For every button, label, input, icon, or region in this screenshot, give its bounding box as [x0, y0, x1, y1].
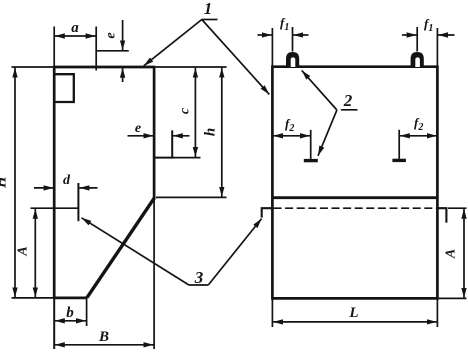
dimension a — [55, 35, 96, 37]
extension line b right — [86, 298, 88, 326]
dimension e top upper arrow — [122, 20, 124, 50]
svg-text:2: 2 — [343, 91, 353, 110]
anchor left base — [304, 159, 318, 162]
right hook notch — [437, 208, 446, 222]
lifting loop left — [286, 52, 299, 67]
svg-text:d: d — [63, 173, 71, 188]
extension line a left — [53, 27, 55, 67]
extension line A-left top — [31, 207, 79, 209]
leader 3 arrow to hook notch — [208, 219, 261, 285]
extension line right-view right edge up — [436, 28, 438, 66]
groove edge (feature 3) — [77, 183, 79, 221]
svg-text:L: L — [348, 305, 358, 321]
dashed joint line — [274, 207, 438, 209]
dimension d left arrow — [34, 187, 54, 189]
left view bottom edge — [53, 297, 88, 300]
svg-text:c: c — [178, 107, 193, 114]
leader 2 arrow to loop — [302, 70, 337, 110]
right view outline — [272, 67, 437, 299]
extension line f1 right loop centre — [416, 27, 418, 52]
dimension H — [14, 68, 16, 298]
dimension h — [221, 68, 223, 197]
extension line B/b left — [53, 299, 55, 349]
leader 3 underline — [189, 284, 208, 286]
leader 1 underline — [202, 19, 218, 21]
lifting loop right — [411, 52, 424, 67]
extension line A-right bottom — [439, 297, 467, 299]
right side step ledge — [154, 130, 174, 157]
dimension f1 left, right arrow — [293, 34, 308, 36]
dimension L — [273, 321, 437, 323]
dimension c — [194, 68, 196, 157]
extension line right-view left edge up — [271, 28, 273, 66]
extension line c/h top — [155, 66, 226, 68]
leader 2 underline — [341, 109, 358, 111]
leader 1 arrow to right view — [202, 20, 269, 95]
extension line H top — [12, 66, 54, 68]
anchor right stem — [398, 130, 400, 159]
dimension e side right arrow — [173, 135, 190, 137]
svg-text:e: e — [135, 121, 141, 136]
dimension f2 left — [273, 135, 310, 137]
dimension f2 right — [400, 135, 437, 137]
extension line B right — [153, 199, 155, 350]
extension line a right — [95, 27, 97, 71]
leader 1 arrow to left view — [144, 20, 202, 66]
extension line c bottom — [174, 157, 201, 159]
extension line h bottom — [156, 196, 227, 198]
top-left square recess — [55, 74, 74, 102]
extension line L right — [436, 300, 438, 328]
left view right edge — [153, 66, 156, 199]
svg-text:H: H — [0, 175, 10, 189]
dimension e side left arrow — [128, 135, 154, 137]
extension line f1 left loop centre — [292, 27, 294, 52]
left view top edge — [53, 66, 155, 69]
right view internal line — [272, 196, 437, 199]
svg-text:A: A — [444, 249, 459, 259]
loop top line (side view) — [96, 50, 129, 52]
left view left edge — [53, 66, 56, 299]
dimension A right — [463, 209, 465, 298]
svg-text:A: A — [16, 246, 31, 256]
svg-text:b: b — [66, 305, 74, 321]
left hook notch — [262, 208, 273, 217]
leader 2 arrow to anchor — [318, 110, 337, 156]
svg-text:e: e — [104, 32, 119, 38]
dimension e top lower arrow — [122, 68, 124, 82]
dimension f1 left, left arrow — [258, 34, 272, 36]
dimension A left — [34, 209, 36, 297]
svg-text:B: B — [98, 329, 109, 345]
anchor left stem — [310, 130, 312, 160]
extension line L left — [271, 300, 273, 328]
extension line A-right top — [448, 207, 467, 209]
dimension f1 right, right arrow — [438, 34, 455, 36]
dimension d right arrow — [79, 187, 97, 189]
svg-text:h: h — [203, 128, 219, 136]
svg-text:a: a — [71, 20, 79, 36]
dimension b — [55, 320, 86, 322]
svg-text:1: 1 — [204, 0, 213, 18]
dimension B — [55, 344, 154, 346]
dimension f1 right, left arrow — [402, 34, 417, 36]
anchor right base — [392, 159, 406, 162]
left view chamfer diagonal — [87, 198, 155, 298]
leader 3 arrow to groove — [82, 218, 189, 285]
extension line H bottom — [12, 297, 54, 299]
